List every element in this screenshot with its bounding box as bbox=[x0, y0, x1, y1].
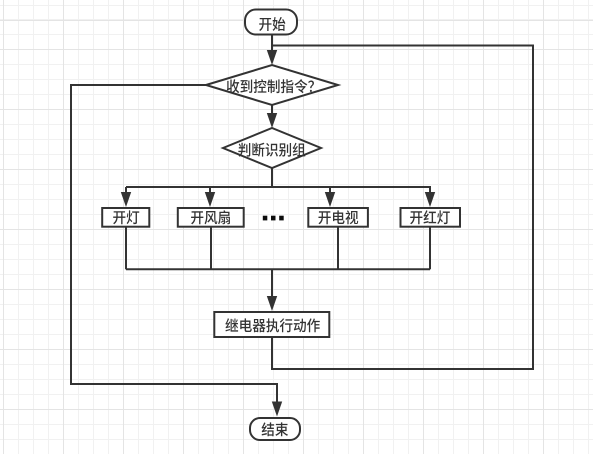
wire collect line to relay box bbox=[271, 269, 273, 297]
wire branch stem to 开灯 bbox=[125, 187, 127, 194]
process 开电视 bbox=[308, 208, 368, 227]
label 开红灯 bbox=[410, 210, 450, 224]
wire branch distribution line bbox=[126, 186, 431, 188]
arrowhead into 开风扇 bbox=[205, 192, 215, 207]
wire branch stem to 开红灯 bbox=[429, 187, 431, 194]
wire 开灯 down to collect line bbox=[125, 227, 127, 270]
arrowhead into 开灯 bbox=[121, 192, 131, 207]
wire 开风扇 down to collect line bbox=[210, 227, 212, 270]
arrowhead into 开电视 bbox=[325, 192, 335, 207]
wire 开红灯 down to collect line bbox=[429, 227, 431, 270]
label 开始 bbox=[259, 17, 285, 31]
terminator 开始 bbox=[245, 10, 297, 35]
decision 判断识别组 bbox=[223, 128, 321, 168]
label 判断识别组 bbox=[238, 143, 305, 157]
decision 收到控制指令？ bbox=[206, 65, 338, 105]
label 继电器执行动作 bbox=[225, 318, 319, 332]
label 收到控制指令？ bbox=[227, 79, 314, 93]
arrowhead into relay box bbox=[267, 296, 277, 311]
wire feedback loop from relay box bottom up the right side to top bbox=[272, 46, 533, 370]
wire branch stem to 开风扇 bbox=[209, 187, 211, 194]
process 开风扇 bbox=[178, 208, 244, 227]
wire start to decision1 bbox=[271, 35, 273, 53]
arrowhead into decision1 bbox=[267, 50, 277, 65]
label 结束 bbox=[262, 422, 288, 436]
arrowhead into decision2 bbox=[267, 113, 277, 128]
wire collect line bbox=[126, 268, 430, 270]
label 开灯 bbox=[113, 210, 139, 224]
arrowhead into 开红灯 bbox=[425, 192, 435, 207]
label 开电视 bbox=[318, 210, 358, 224]
process 开红灯 bbox=[401, 208, 461, 227]
wire branch stem to 开电视 bbox=[329, 187, 331, 194]
label 开风扇 bbox=[191, 210, 230, 224]
wire 开电视 down to collect line bbox=[337, 227, 339, 270]
process 开灯 bbox=[102, 208, 149, 227]
wire no-branch from decision1 left vertex down the left side to end bbox=[71, 85, 277, 402]
ellipsis dots between boxes bbox=[263, 216, 268, 221]
wire decision2 to branch line bbox=[271, 168, 273, 187]
wire decision1 to decision2 bbox=[271, 105, 273, 115]
terminator 结束 bbox=[250, 418, 300, 440]
process 继电器执行动作 bbox=[214, 312, 329, 337]
arrowhead into end bbox=[272, 402, 282, 417]
